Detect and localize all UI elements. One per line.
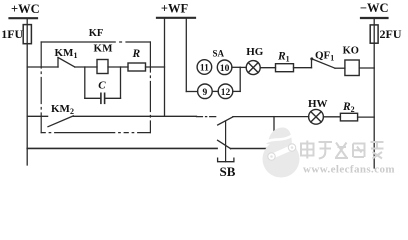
switch SA contact 11 (197, 60, 212, 75)
wire bottom bus left (27, 147, 217, 149)
wire C branch bottom right (105, 97, 121, 99)
power bus bar +WC (10, 17, 38, 19)
pushbutton SB actuator stem (225, 122, 227, 162)
contact KM2 (48, 116, 73, 127)
svg-text:2FU: 2FU (380, 27, 402, 41)
svg-text:KM2: KM2 (51, 103, 74, 116)
wire row2 drop to bottom bus (273, 117, 275, 149)
wire R1 to QF1 (294, 67, 312, 69)
wire bottom bus right (231, 148, 274, 150)
fuse 2FU (370, 25, 378, 43)
wire C branch right vertical (120, 67, 122, 98)
wire KO to right rail (359, 67, 374, 69)
svg-text:HG: HG (246, 46, 264, 58)
wire KM2 to link (73, 115, 196, 117)
resistor R (128, 63, 146, 71)
svg-text:KO: KO (343, 46, 359, 57)
pushbutton SB button cap (218, 158, 234, 162)
contact SB upper blade (218, 117, 233, 125)
contact KM1 (58, 58, 75, 68)
svg-text:10: 10 (220, 64, 230, 74)
svg-text:R1: R1 (277, 51, 290, 64)
wire row2 rail to KM2 (27, 115, 47, 117)
wire coil KM to resistor R (108, 66, 128, 68)
watermark text 电子发烧友 (301, 141, 384, 159)
wire QF1 to KO (335, 67, 345, 69)
capacitor C (101, 93, 105, 103)
mechanical link dash-dot (197, 116, 218, 118)
fuse 1FU (23, 25, 31, 44)
wire HG to R1 (260, 67, 275, 69)
wire junction vertical 10-12 (239, 67, 241, 91)
svg-text:9: 9 (203, 88, 208, 98)
wire contact 9 to contact 12 (212, 90, 218, 92)
switch SA contact 10 (217, 60, 232, 75)
wire contact 10 to junction (232, 66, 240, 68)
power bus bar +WF (157, 17, 195, 19)
svg-text:KM: KM (94, 43, 114, 55)
wire C branch left vertical (84, 67, 86, 98)
svg-text:12: 12 (221, 88, 231, 98)
wire R2 to right rail (358, 116, 375, 118)
lamp HW (309, 109, 324, 124)
relay coil KM (97, 60, 108, 74)
wire C branch bottom left (85, 97, 101, 99)
wire row2 to HW (233, 116, 309, 118)
pushbutton SB blade (218, 140, 231, 148)
svg-text:www.elecfans.com: www.elecfans.com (303, 164, 395, 176)
resistor R2 (340, 113, 357, 121)
switch SA contact 9 (198, 84, 213, 99)
svg-text:QF1: QF1 (315, 49, 334, 62)
wire right rail (373, 18, 375, 168)
svg-text:C: C (98, 80, 106, 92)
wire HW to R2 (323, 116, 340, 118)
svg-text:SB: SB (220, 164, 236, 179)
wire left rail (26, 18, 28, 165)
wire +WF right drop (185, 18, 187, 92)
wire contact 12 to junction (233, 90, 240, 92)
svg-text:−WC: −WC (360, 1, 389, 15)
svg-text:R2: R2 (342, 101, 355, 114)
svg-text:11: 11 (200, 64, 209, 74)
svg-text:+WF: +WF (161, 2, 189, 16)
enclosure box KF (dash-dot) (41, 42, 150, 133)
svg-text:1FU: 1FU (1, 27, 23, 41)
svg-text:HW: HW (308, 98, 328, 110)
breaker QF1 (310, 57, 335, 68)
svg-text:+WC: +WC (11, 2, 40, 16)
wire junction to lamp HG (240, 66, 246, 68)
switch SA contact 12 (218, 84, 233, 99)
watermark logo (263, 127, 300, 177)
svg-text:KF: KF (89, 28, 104, 39)
wire R to +WF drop (146, 66, 165, 68)
relay coil KO (345, 60, 359, 76)
wire row1 rail to KM1 (27, 66, 58, 68)
svg-text:R: R (131, 48, 140, 60)
wire +WF drop to contact 9 (186, 91, 197, 93)
svg-text:KM1: KM1 (55, 47, 78, 60)
wire +WF left drop (164, 18, 166, 117)
resistor R1 (276, 64, 294, 72)
svg-text:SA: SA (213, 49, 225, 59)
wire KM1 to coil KM (75, 66, 97, 68)
lamp HG (246, 61, 260, 75)
power bus bar -WC (361, 17, 388, 19)
